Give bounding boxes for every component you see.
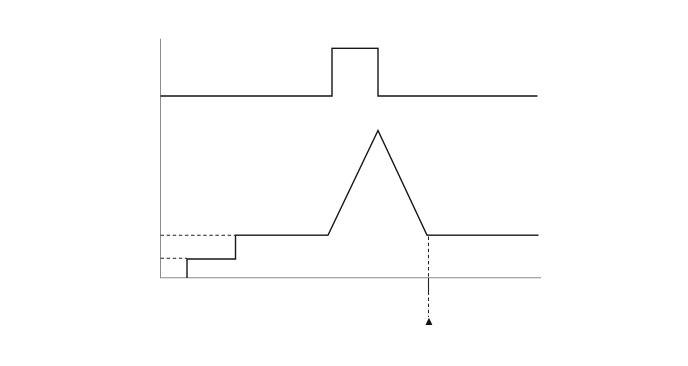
dashed level line lower xyxy=(161,257,188,259)
vertical axis xyxy=(160,39,162,278)
arrowhead xyxy=(426,318,433,325)
horizontal time axis xyxy=(160,277,541,279)
dashed vertical marker line xyxy=(428,237,430,318)
top pulse waveform xyxy=(161,48,538,96)
solid tick below axis xyxy=(428,278,430,295)
bottom staircase-triangle waveform xyxy=(187,131,539,279)
dashed level line upper xyxy=(161,234,236,236)
